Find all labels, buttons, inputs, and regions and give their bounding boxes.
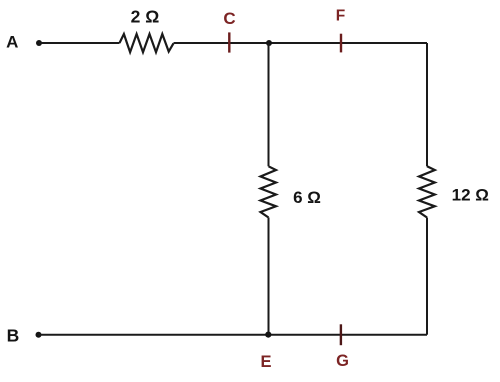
wire R1 to top-right corner <box>174 42 428 44</box>
svg-text:G: G <box>336 352 349 370</box>
resistor R2 6 ohm <box>261 166 277 217</box>
svg-text:E: E <box>260 353 271 371</box>
svg-text:C: C <box>223 9 235 28</box>
junction dot node E <box>265 332 271 338</box>
wire bottom B to corner <box>39 334 428 336</box>
wire top node down to resistor R2 <box>268 43 270 166</box>
junction dot top node <box>266 40 272 46</box>
wire R3 down to bottom-right corner <box>426 218 428 335</box>
terminal dot A <box>36 40 42 46</box>
svg-text:A: A <box>6 33 18 52</box>
svg-text:2 Ω: 2 Ω <box>131 6 160 26</box>
svg-text:B: B <box>7 326 20 346</box>
tick C <box>228 32 230 52</box>
wire top-right corner down to resistor R3 <box>426 43 428 166</box>
svg-text:12 Ω: 12 Ω <box>452 186 489 205</box>
wire A to resistor R1 <box>39 42 120 44</box>
tick F <box>340 34 342 53</box>
svg-text:6 Ω: 6 Ω <box>293 188 321 207</box>
terminal dot B <box>36 332 42 338</box>
svg-text:F: F <box>336 8 345 25</box>
wire R2 down to node E <box>268 218 270 335</box>
tick G <box>340 324 342 345</box>
resistor R1 2 ohm <box>120 34 174 52</box>
resistor R3 12 ohm <box>419 166 435 217</box>
